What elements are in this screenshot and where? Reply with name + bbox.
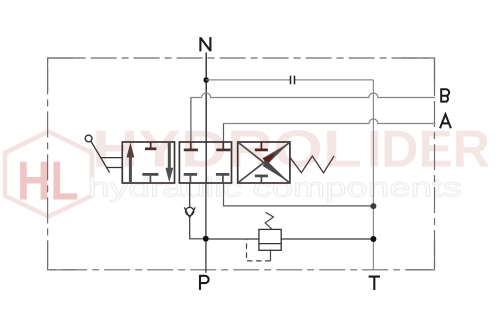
envelope 1 up arrow shaft — [129, 156, 132, 183]
wire check valve branch — [190, 183, 203, 239]
envelope 3 cross arrow up head — [263, 143, 290, 165]
wire relief valve to T — [281, 238, 373, 240]
envelope 3 top T port — [260, 142, 262, 150]
lever arm — [91, 141, 110, 172]
envelope 1 up arrow head — [127, 142, 135, 157]
envelope 2 center through line — [205, 142, 207, 183]
wire B with corner and hops — [190, 93, 435, 98]
envelope 2 top T port B — [190, 142, 192, 150]
wire from N dot to right with break symbol — [206, 79, 373, 81]
relief valve spring — [265, 212, 273, 229]
wire N vertical from label to valve — [205, 53, 207, 143]
envelope 3 bottom T port — [260, 176, 262, 183]
envelope 3 cross arrow up line — [238, 142, 290, 183]
envelope 2 bottom T port left — [189, 175, 191, 184]
envelope 1 down arrow head — [165, 168, 173, 183]
envelope 2 top T port A — [222, 142, 224, 150]
envelope 3 cross arrow up head maroon base — [263, 153, 276, 164]
check valve ball — [186, 207, 194, 215]
label N — [200, 37, 210, 51]
relief valve inner line — [259, 243, 281, 245]
envelope 2 bottom T port right — [222, 175, 224, 184]
wire B vertical to valve — [190, 98, 192, 143]
envelope 3 cross arrow down line — [238, 142, 290, 183]
boundary solid corner segments — [48, 58, 435, 270]
wire A vertical to valve — [223, 124, 225, 143]
lever knob — [85, 135, 92, 142]
relief valve body — [259, 229, 281, 250]
wire valve to T line upper — [224, 183, 374, 206]
label A — [440, 114, 451, 128]
junction dot at N branch — [203, 77, 209, 83]
label P — [200, 275, 209, 290]
junction dot T line lower — [370, 236, 376, 242]
wire A with corner and hop — [223, 119, 435, 124]
boundary dash-dot frame — [48, 58, 435, 270]
watermark logo hexagon HL — [5, 132, 92, 217]
valve envelope 2 — [179, 142, 231, 183]
wire P vertical below valve — [205, 183, 207, 273]
valve envelope 1 — [122, 142, 174, 183]
envelope 3 cross arrow down head — [263, 161, 290, 183]
envelope 1 down arrow shaft — [168, 142, 171, 169]
check valve seat — [184, 207, 195, 217]
svg-text:IDER: IDER — [367, 121, 490, 179]
valve return spring — [290, 156, 334, 173]
valve envelope 3 — [238, 142, 290, 183]
lever link lower — [106, 167, 122, 169]
wire P to relief valve — [209, 238, 259, 240]
junction dot P line — [203, 236, 209, 242]
label T — [369, 277, 380, 290]
svg-text:hydraulic components: hydraulic components — [88, 173, 462, 203]
break symbol ticks — [291, 76, 295, 85]
wire T vertical right side — [372, 80, 374, 270]
label B — [441, 88, 449, 102]
envelope 1 bottom T port — [149, 175, 151, 184]
lever link upper — [100, 157, 122, 159]
envelope 1 top T port — [150, 142, 152, 149]
junction dot T line upper — [370, 203, 376, 209]
relief valve pilot dashed line — [247, 239, 271, 261]
relief valve drain line — [270, 250, 272, 261]
